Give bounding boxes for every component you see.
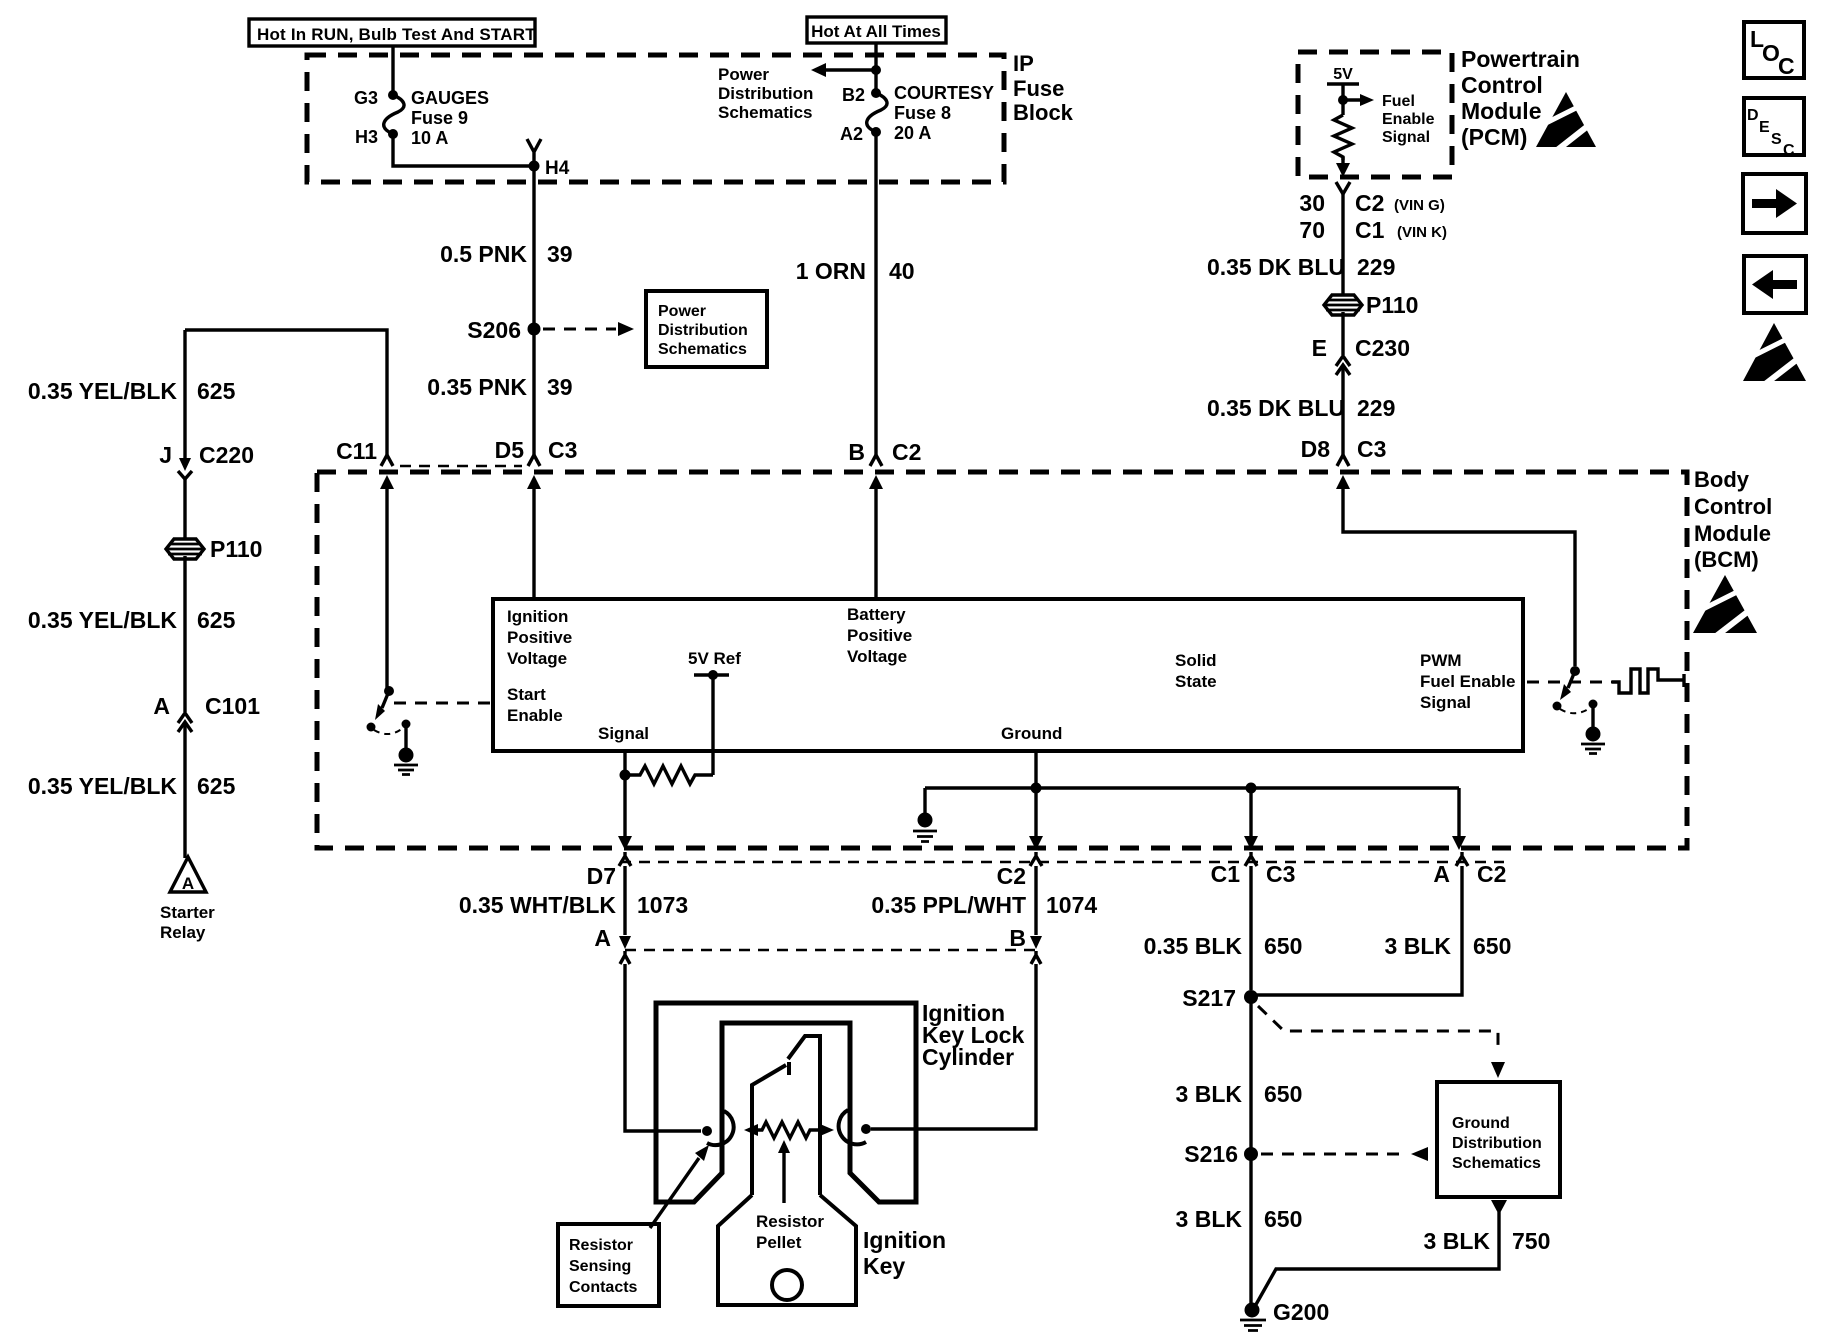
wire: to C230 (1341, 312, 1344, 355)
svg-text:IP: IP (1013, 51, 1034, 76)
svg-text:Ignition: Ignition (507, 607, 568, 626)
ignition key head (718, 1195, 856, 1305)
svg-text:A: A (1433, 861, 1450, 887)
label: IP Fuse Block (1013, 51, 1074, 125)
svg-text:A: A (594, 925, 611, 951)
svg-text:650: 650 (1264, 1081, 1302, 1107)
svg-text:State: State (1175, 672, 1217, 691)
svg-text:C220: C220 (199, 442, 254, 468)
svg-text:Body: Body (1694, 467, 1750, 492)
label: Solid State (1175, 651, 1217, 691)
svg-text:650: 650 (1264, 1206, 1302, 1232)
svg-text:S: S (1771, 131, 1782, 148)
svg-text:Power: Power (718, 65, 769, 84)
svg-text:750: 750 (1512, 1228, 1550, 1254)
fuse F8 COURTESY (B2/A2) (840, 83, 994, 144)
label: 1 ORN 40 (796, 258, 915, 284)
key ring hole (772, 1270, 802, 1300)
svg-text:C2: C2 (892, 439, 921, 465)
svg-text:Fuse 8: Fuse 8 (894, 103, 951, 123)
svg-text:E: E (1312, 335, 1327, 361)
node H4 junction (527, 139, 570, 179)
svg-text:650: 650 (1473, 933, 1511, 959)
svg-text:Ground: Ground (1452, 1115, 1510, 1132)
svg-text:Starter: Starter (160, 903, 215, 922)
svg-text:C: C (1783, 142, 1795, 159)
svg-text:70: 70 (1299, 217, 1325, 243)
connector A/C101 (153, 693, 260, 732)
svg-text:Control: Control (1694, 494, 1772, 519)
svg-text:E: E (1759, 119, 1770, 136)
svg-text:Schematics: Schematics (1452, 1155, 1541, 1172)
svg-text:B: B (1009, 925, 1026, 951)
wire: 0.35 BLK 650 (C3) (1144, 866, 1303, 990)
svg-text:Block: Block (1013, 100, 1074, 125)
arrow into BCM at D5 (527, 475, 541, 599)
resistor: PCM pull-up (1334, 115, 1352, 160)
svg-text:Voltage: Voltage (507, 649, 567, 668)
ground: BCM internal (913, 813, 937, 842)
svg-text:0.5 PNK: 0.5 PNK (440, 241, 527, 267)
svg-text:S206: S206 (467, 317, 521, 343)
thin connector line below BCM (620, 861, 1504, 864)
svg-text:C230: C230 (1355, 335, 1410, 361)
svg-text:0.35 DK BLU: 0.35 DK BLU (1207, 395, 1345, 421)
reference box: Ground Distribution Schematics (1437, 1082, 1560, 1197)
svg-text:Resistor: Resistor (569, 1237, 633, 1254)
node: 5V Ref (688, 649, 741, 775)
svg-text:Control: Control (1461, 72, 1543, 98)
feed label box: Hot At All Times (807, 17, 946, 43)
label: Ignition Positive Voltage (507, 607, 572, 668)
wire: 3 BLK 650 (mid) (1176, 997, 1303, 1148)
svg-text:0.35 PNK: 0.35 PNK (427, 374, 527, 400)
wire+arrow: fuel enable to PCM edge (1336, 157, 1350, 177)
connector D5/C3 labels (495, 437, 578, 466)
wire: 0.35 WHT/BLK 1073 (459, 866, 688, 951)
lock cylinder body (656, 1003, 916, 1202)
svg-text:0.35 WHT/BLK: 0.35 WHT/BLK (459, 892, 617, 918)
svg-text:Signal: Signal (1420, 693, 1471, 712)
svg-text:Pellet: Pellet (756, 1233, 802, 1252)
svg-text:GAUGES: GAUGES (411, 88, 489, 108)
connector C11 label (336, 438, 393, 466)
svg-text:Distribution: Distribution (718, 84, 813, 103)
svg-text:B: B (848, 439, 865, 465)
svg-text:Ignition: Ignition (863, 1227, 946, 1253)
ground G200 (1240, 1299, 1329, 1331)
label: 0.35 PNK 39 (427, 374, 572, 400)
IP fuse block dashed box (307, 55, 1004, 182)
svg-text:0.35 PPL/WHT: 0.35 PPL/WHT (871, 892, 1026, 918)
svg-text:10 A: 10 A (411, 128, 448, 148)
svg-text:Signal: Signal (1382, 129, 1430, 146)
svg-text:5V Ref: 5V Ref (688, 649, 741, 668)
svg-text:Fuel Enable: Fuel Enable (1420, 672, 1515, 691)
wire: feed into fuse 9 (391, 46, 394, 92)
BCM solid-state inner box (493, 599, 1523, 751)
svg-text:1073: 1073 (637, 892, 688, 918)
svg-text:Signal: Signal (598, 724, 649, 743)
svg-text:Fuse: Fuse (1013, 76, 1064, 101)
wire+arrow: ground to C1/C3 (1244, 783, 1258, 851)
svg-text:3 BLK: 3 BLK (1385, 933, 1452, 959)
svg-text:0.35 DK BLU: 0.35 DK BLU (1207, 254, 1345, 280)
svg-text:Schematics: Schematics (658, 341, 747, 358)
svg-text:C2: C2 (997, 863, 1026, 889)
resistor pellet element (744, 1122, 834, 1138)
label: 0.5 PNK 39 (440, 241, 573, 267)
ignition key blade (752, 1036, 820, 1195)
reference box: Power Distribution Schematics (646, 291, 767, 367)
svg-text:G200: G200 (1273, 1299, 1329, 1325)
svg-text:A2: A2 (840, 124, 863, 144)
svg-text:Powertrain: Powertrain (1461, 46, 1580, 72)
connector D8/C3 labels (1301, 436, 1387, 466)
switch: PWM fuel enable (right) (1527, 666, 1612, 713)
label: Battery Positive Voltage (847, 605, 912, 666)
wire: A to left sensing contact (625, 964, 701, 1131)
wire: fuse output to H4 (393, 134, 534, 166)
sidebar icon: left arrow box (1744, 256, 1806, 313)
PCM dashed box (1298, 52, 1452, 177)
pass-through P110 (left) (166, 536, 262, 562)
svg-text:Module: Module (1694, 521, 1771, 546)
svg-text:39: 39 (547, 374, 573, 400)
svg-text:3 BLK: 3 BLK (1176, 1206, 1243, 1232)
svg-text:C1: C1 (1211, 861, 1241, 887)
svg-text:B2: B2 (842, 85, 865, 105)
wire: 3 BLK 650 (C2-A) (1257, 866, 1511, 995)
svg-text:D7: D7 (587, 863, 616, 889)
svg-text:5V: 5V (1333, 66, 1353, 83)
svg-text:Resistor: Resistor (756, 1212, 824, 1231)
svg-text:G3: G3 (354, 88, 378, 108)
svg-text:C3: C3 (1266, 861, 1295, 887)
svg-text:Positive: Positive (847, 626, 912, 645)
label: PWM Fuel Enable Signal (1420, 651, 1515, 712)
arrow into BCM at C11 (380, 475, 394, 688)
sidebar icon: DESC box (1744, 98, 1804, 159)
svg-text:H4: H4 (545, 158, 570, 179)
node: power distribution tap with left arrow (718, 63, 881, 122)
svg-text:P110: P110 (1366, 292, 1418, 318)
svg-text:Key: Key (863, 1253, 905, 1279)
wire: signal out of inner box (623, 751, 626, 775)
wire: to C101 (183, 556, 186, 712)
svg-text:1 ORN: 1 ORN (796, 258, 866, 284)
resistor sensing contact (right) (839, 1110, 871, 1144)
wire: 0.35 YEL/BLK 625 (mid) (28, 478, 236, 633)
arrow into BCM at D8 (1336, 475, 1575, 666)
svg-text:Voltage: Voltage (847, 647, 907, 666)
connector below PCM (1336, 182, 1350, 194)
svg-text:20 A: 20 A (894, 123, 931, 143)
svg-text:PWM: PWM (1420, 651, 1462, 670)
svg-text:C11: C11 (336, 438, 377, 464)
svg-text:Hot In RUN, Bulb Test And STAR: Hot In RUN, Bulb Test And START (257, 25, 536, 44)
arrow: sensing contacts pointer (650, 1145, 709, 1228)
svg-text:Module: Module (1461, 98, 1542, 124)
splice S206 (467, 317, 634, 343)
svg-text:C2: C2 (1477, 861, 1506, 887)
svg-text:229: 229 (1357, 254, 1395, 280)
svg-text:COURTESY: COURTESY (894, 83, 994, 103)
svg-text:Hot At All Times: Hot At All Times (811, 22, 941, 41)
svg-text:0.35 YEL/BLK: 0.35 YEL/BLK (28, 607, 178, 633)
splice S216 (1184, 1141, 1428, 1167)
connector forks at BCM bottom (619, 852, 1468, 866)
wire: 0.35 DK BLU 229 lower (1341, 368, 1344, 455)
wire: 1 ORN 40 vertical (874, 132, 877, 455)
pass-through P110 (PCM harness) (1324, 292, 1418, 318)
ESD symbol (BCM) (1693, 575, 1759, 637)
ESD symbol (PCM) (1536, 92, 1598, 151)
wire: ground bus inside BCM (925, 751, 1459, 850)
sidebar icon: ESD symbol (1743, 323, 1808, 385)
svg-text:C2: C2 (1355, 190, 1384, 216)
svg-text:39: 39 (547, 241, 573, 267)
svg-text:D: D (1747, 107, 1759, 124)
sidebar icon: LOC box (1744, 22, 1804, 79)
svg-text:(VIN G): (VIN G) (1394, 197, 1445, 214)
connector labels D7 / C2 (587, 863, 1026, 889)
thin connector line A-B (625, 949, 1040, 952)
fork below A (620, 951, 630, 964)
svg-text:S217: S217 (1182, 985, 1236, 1011)
PWM waveform symbol (1612, 669, 1684, 693)
feed label box: Hot In RUN, Bulb Test And START (249, 19, 536, 46)
svg-text:C3: C3 (1357, 436, 1386, 462)
svg-text:D8: D8 (1301, 436, 1331, 462)
svg-text:229: 229 (1357, 395, 1395, 421)
svg-text:Schematics: Schematics (718, 103, 813, 122)
wire+arrow: ground to A/C2 (1452, 788, 1466, 850)
wire: 0.35 DK BLU 229 upper (1341, 194, 1344, 294)
resistor: passlock sense (620, 766, 714, 784)
svg-text:P110: P110 (210, 536, 262, 562)
splice S217 (1182, 985, 1505, 1078)
wire: 0.35 YEL/BLK 625 (top) (28, 378, 236, 404)
svg-text:625: 625 (197, 773, 236, 799)
svg-text:Distribution: Distribution (658, 322, 748, 339)
svg-text:S216: S216 (1184, 1141, 1238, 1167)
svg-text:A: A (182, 874, 194, 893)
svg-text:0.35 YEL/BLK: 0.35 YEL/BLK (28, 378, 178, 404)
label: Ignition Key Lock Cylinder (922, 1000, 1024, 1070)
connector E/C230 (1312, 335, 1410, 375)
svg-text:Distribution: Distribution (1452, 1135, 1542, 1152)
svg-text:D5: D5 (495, 437, 525, 463)
svg-text:40: 40 (889, 258, 915, 284)
sidebar icon: right arrow box (1743, 174, 1806, 233)
connector J/C220 (159, 330, 254, 479)
thin connector line C11-D5 (400, 465, 522, 468)
svg-text:3 BLK: 3 BLK (1424, 1228, 1491, 1254)
svg-text:Enable: Enable (507, 706, 563, 725)
svg-text:J: J (159, 442, 172, 468)
label: Powertrain Control Module (PCM) (1461, 46, 1580, 150)
svg-text:(VIN K): (VIN K) (1397, 224, 1447, 241)
svg-text:Solid: Solid (1175, 651, 1217, 670)
svg-text:Enable: Enable (1382, 111, 1435, 128)
label: Ignition Key (863, 1227, 946, 1279)
wire+arrow: signal to D7 (618, 775, 632, 850)
svg-text:Cylinder: Cylinder (922, 1044, 1014, 1070)
label: Start Enable (507, 685, 563, 725)
svg-text:625: 625 (197, 378, 236, 404)
svg-text:(PCM): (PCM) (1461, 124, 1527, 150)
resistor sensing contact (left) (702, 1111, 734, 1145)
wire: 0.35 YEL/BLK 625 (bottom) (28, 725, 236, 858)
svg-text:650: 650 (1264, 933, 1302, 959)
node: 5V supply in PCM (1327, 66, 1435, 146)
wire: 0.5 PNK 39 vertical (532, 166, 535, 455)
arrow into BCM at B (869, 475, 883, 599)
svg-text:C: C (1778, 53, 1795, 79)
svg-text:Fuse 9: Fuse 9 (411, 108, 468, 128)
wire: 3 BLK 750 (1254, 1200, 1550, 1308)
ground: PWM switch (1581, 706, 1605, 754)
svg-text:3 BLK: 3 BLK (1176, 1081, 1243, 1107)
reference box: Resistor Sensing Contacts (558, 1224, 659, 1306)
wire: Hot At All Times drop (874, 43, 877, 93)
svg-text:Sensing: Sensing (569, 1258, 631, 1275)
wire: 0.35 PPL/WHT 1074 (871, 866, 1097, 951)
BCM dashed box (317, 472, 1687, 848)
svg-text:Contacts: Contacts (569, 1279, 638, 1296)
svg-text:Start: Start (507, 685, 546, 704)
svg-text:Positive: Positive (507, 628, 572, 647)
fuse F9 GAUGES (G3/H3) (354, 88, 489, 148)
ground: start enable switch (394, 726, 418, 775)
svg-text:Power: Power (658, 303, 706, 320)
svg-text:1074: 1074 (1046, 892, 1097, 918)
svg-text:30: 30 (1299, 190, 1325, 216)
wire: B to right sensing contact (871, 964, 1036, 1129)
svg-text:Fuel: Fuel (1382, 93, 1415, 110)
starter relay terminal (160, 857, 215, 942)
label: Body Control Module (BCM) (1694, 467, 1772, 572)
svg-text:0.35 YEL/BLK: 0.35 YEL/BLK (28, 773, 178, 799)
svg-text:C1: C1 (1355, 217, 1385, 243)
svg-text:C3: C3 (548, 437, 577, 463)
switch: start enable (left) (367, 686, 492, 734)
svg-text:H3: H3 (355, 127, 378, 147)
wire: 3 BLK 650 (bottom) (1176, 1154, 1303, 1308)
connector B/C2 labels (848, 439, 921, 466)
labels: 30 C2 (VIN G) / 70 C1 (VIN K) (1299, 190, 1447, 243)
svg-text:0.35 BLK: 0.35 BLK (1144, 933, 1243, 959)
svg-text:C101: C101 (205, 693, 260, 719)
svg-text:Battery: Battery (847, 605, 906, 624)
svg-text:625: 625 (197, 607, 236, 633)
svg-text:Ground: Ground (1001, 724, 1062, 743)
arrow: resistor pellet pointer (756, 1140, 824, 1252)
svg-text:A: A (153, 693, 170, 719)
wire: YEL/BLK feed to C11 (185, 330, 387, 455)
fork below B (1031, 951, 1041, 964)
svg-text:Relay: Relay (160, 923, 206, 942)
connector labels C1/C3 and A/C2 (1211, 861, 1507, 887)
svg-text:(BCM): (BCM) (1694, 547, 1759, 572)
